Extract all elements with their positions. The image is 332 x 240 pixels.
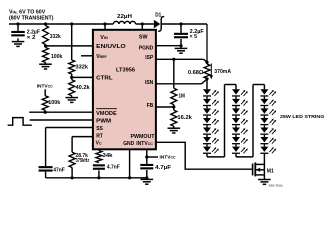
svg-text:D1: D1: [155, 13, 161, 19]
svg-text:EN/UVLO: EN/UVLO: [96, 44, 126, 50]
svg-text:16.2k: 16.2k: [177, 115, 192, 121]
svg-text:47nF: 47nF: [53, 168, 65, 174]
svg-text:100k: 100k: [48, 100, 60, 106]
svg-text:ISN: ISN: [145, 80, 154, 86]
svg-text:0.68Ω: 0.68Ω: [188, 70, 204, 76]
svg-text:CTRL: CTRL: [96, 76, 113, 82]
svg-text:VC: VC: [96, 141, 102, 147]
svg-text:370mA: 370mA: [214, 69, 231, 75]
svg-text:INTVCC: INTVCC: [37, 83, 53, 89]
svg-text:3956 TA01b: 3956 TA01b: [269, 183, 284, 187]
svg-text:INTVCC: INTVCC: [160, 155, 176, 161]
svg-text:375kHz: 375kHz: [76, 158, 90, 164]
svg-text:VIN: VIN: [100, 35, 108, 41]
svg-text:× 5: × 5: [190, 34, 198, 40]
svg-text:INTVCC: INTVCC: [136, 141, 153, 147]
svg-text:PWMOUT: PWMOUT: [131, 134, 155, 140]
svg-text:VMODE: VMODE: [96, 111, 117, 117]
svg-text:34k: 34k: [103, 153, 113, 159]
svg-text:22µH: 22µH: [117, 14, 132, 20]
svg-text:SW: SW: [139, 35, 148, 41]
svg-text:× 2: × 2: [27, 35, 36, 41]
svg-text:PWM: PWM: [96, 119, 111, 125]
svg-text:VREF: VREF: [96, 54, 107, 60]
svg-text:1M: 1M: [179, 93, 185, 99]
svg-text:GND: GND: [123, 141, 134, 147]
svg-text:4.7µF: 4.7µF: [155, 165, 171, 171]
svg-text:FB: FB: [147, 103, 154, 109]
svg-text:100k: 100k: [51, 54, 63, 60]
svg-text:RT: RT: [96, 134, 103, 140]
svg-text:25W LED STRING: 25W LED STRING: [280, 114, 325, 120]
svg-text:LT3956: LT3956: [116, 68, 135, 74]
svg-text:M1: M1: [267, 169, 274, 175]
svg-text:PGND: PGND: [139, 45, 154, 51]
svg-text:40.2k: 40.2k: [76, 85, 90, 91]
svg-text:(80V TRANSIENT): (80V TRANSIENT): [9, 15, 54, 21]
svg-text:332k: 332k: [76, 64, 89, 70]
svg-text:ISP: ISP: [145, 55, 154, 61]
svg-text:332k: 332k: [50, 34, 61, 40]
svg-text:4.7nF: 4.7nF: [107, 165, 120, 171]
svg-text:SS: SS: [96, 126, 103, 132]
